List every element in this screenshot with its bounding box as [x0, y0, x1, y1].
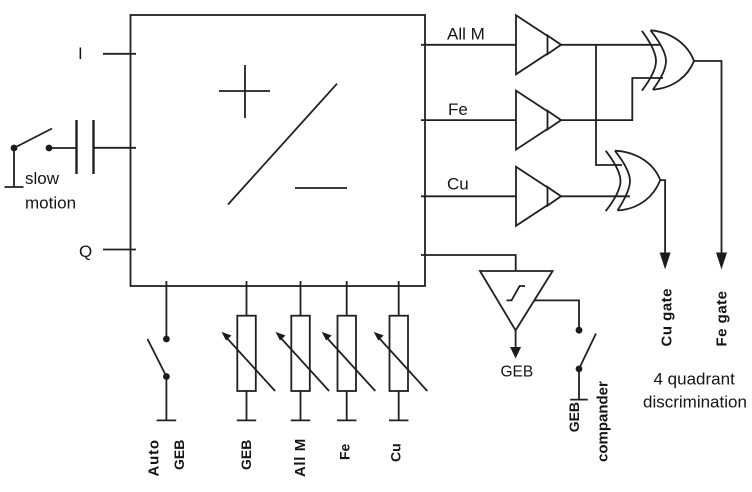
svg-text:Q: Q	[79, 242, 92, 261]
capacitor C1	[77, 120, 94, 174]
wire U2 output to XOR U5	[561, 44, 661, 46]
potentiometer R1 GEB	[222, 281, 276, 420]
potentiometer R3 Fe	[322, 281, 376, 420]
svg-text:All M: All M	[447, 25, 485, 44]
wire U6 output to Cu gate arrow	[660, 180, 665, 254]
XOR gate U6	[606, 151, 661, 212]
amplifier U2 All M	[516, 15, 561, 74]
svg-text:GEB: GEB	[171, 440, 187, 470]
svg-text:Cu: Cu	[447, 174, 469, 193]
wire I input	[103, 53, 136, 55]
label GEB compander	[566, 381, 612, 462]
wire Fe to amp	[421, 119, 516, 121]
label 4 quadrant discrimination	[643, 370, 747, 412]
svg-text:GEB: GEB	[238, 440, 254, 470]
wire block to comparator U7	[421, 255, 516, 271]
wire block to auto-GEB switch	[165, 281, 167, 336]
svg-text:motion: motion	[25, 194, 76, 213]
ground for R4	[389, 419, 408, 421]
wire U4 output to XOR U6 lower input	[561, 195, 630, 197]
svg-text:GEB: GEB	[566, 402, 582, 432]
switch S2 auto GEB	[148, 336, 170, 380]
switch S3 GEB compander	[576, 327, 596, 372]
label slow motion	[25, 169, 76, 213]
wire Q input	[103, 249, 136, 251]
plus symbol	[219, 65, 270, 118]
ground for R3	[337, 419, 356, 421]
arrow Cu gate	[660, 253, 671, 270]
svg-text:4 quadrant: 4 quadrant	[654, 370, 736, 389]
wire All M to amp	[421, 44, 516, 46]
arrow Fe gate	[716, 253, 727, 270]
svg-text:All M: All M	[292, 438, 309, 477]
ground for S3	[570, 372, 588, 400]
wire U7 to switch S3	[534, 300, 579, 327]
svg-text:I: I	[78, 44, 83, 63]
ground for R2	[291, 419, 310, 421]
minus symbol	[295, 187, 347, 189]
wire branch All M down to XOR U6	[596, 45, 622, 165]
svg-text:Fe gate: Fe gate	[714, 290, 731, 346]
svg-text:Cu gate: Cu gate	[659, 288, 676, 347]
wire U5 output to Fe gate arrow	[694, 61, 722, 254]
wire U3 output to XOR U5 lower input	[561, 78, 663, 120]
wire S1 to C1	[51, 147, 76, 149]
ground for S2	[157, 380, 177, 421]
potentiometer R4 Cu	[374, 281, 428, 420]
svg-text:discrimination: discrimination	[643, 392, 747, 411]
svg-text:Auto: Auto	[146, 439, 163, 476]
ground for R1	[237, 419, 256, 421]
svg-text:Fe: Fe	[448, 100, 468, 119]
arrow GEB output	[510, 330, 521, 358]
svg-text:GEB: GEB	[501, 364, 534, 381]
divide slash symbol	[228, 84, 337, 205]
svg-text:Cu: Cu	[388, 443, 404, 462]
wire Cu to amp	[421, 195, 516, 197]
ground for S1	[5, 151, 24, 187]
label Auto GEB	[146, 439, 188, 476]
switch S1 slow motion	[11, 129, 53, 152]
svg-text:slow: slow	[25, 169, 60, 188]
XOR gate U5	[642, 30, 694, 90]
potentiometer R2 All M	[276, 281, 330, 420]
svg-text:compander: compander	[595, 381, 612, 462]
amplifier U4 Cu	[516, 167, 561, 226]
amplifier U3 Fe	[516, 91, 561, 150]
wire C1 to block	[95, 147, 137, 149]
svg-text:Fe: Fe	[337, 443, 353, 460]
comparator U7 GEB	[480, 271, 553, 330]
main processing block U1	[131, 15, 426, 286]
